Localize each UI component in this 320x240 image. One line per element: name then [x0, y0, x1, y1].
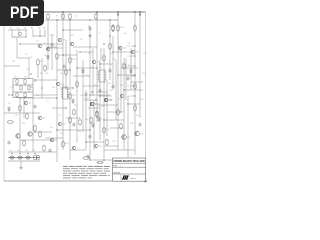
svg-text:75V: 75V	[26, 69, 30, 71]
svg-text:.01: .01	[98, 33, 101, 35]
svg-text:1K: 1K	[128, 65, 131, 67]
svg-text:3.3K: 3.3K	[50, 35, 55, 37]
svg-text:Q17: Q17	[98, 146, 103, 148]
svg-text:R70: R70	[127, 46, 130, 48]
svg-text:47p: 47p	[124, 33, 127, 35]
svg-text:2N3: 2N3	[45, 73, 48, 75]
svg-text:R61: R61	[12, 61, 15, 63]
svg-text:R24: R24	[72, 95, 77, 97]
svg-text:R72: R72	[127, 86, 130, 88]
svg-text:R1: R1	[56, 16, 58, 18]
svg-text:CROWN MACRO-TECH 2400: CROWN MACRO-TECH 2400	[113, 160, 145, 163]
svg-text:Q16: Q16	[108, 100, 113, 102]
svg-text:Q11: Q11	[62, 124, 67, 126]
svg-text:C2: C2	[75, 16, 77, 18]
svg-text:4.7K: 4.7K	[10, 87, 15, 89]
svg-text:Q8: Q8	[62, 40, 66, 42]
svg-text:D12: D12	[85, 119, 88, 121]
svg-text:R28: R28	[65, 143, 70, 145]
svg-text:220: 220	[86, 75, 89, 77]
svg-text:220: 220	[143, 53, 146, 55]
svg-text:R40: R40	[120, 27, 125, 29]
svg-text:C8: C8	[34, 81, 36, 83]
svg-text:2N3: 2N3	[130, 123, 133, 125]
svg-text:Q7: Q7	[58, 115, 61, 117]
svg-text:U2: U2	[99, 67, 101, 69]
svg-text:R61: R61	[22, 123, 25, 125]
svg-text:R9: R9	[33, 150, 35, 152]
svg-text:100: 100	[44, 55, 47, 57]
svg-text:C30: C30	[112, 59, 115, 61]
svg-text:D12: D12	[110, 53, 113, 55]
svg-text:Q3: Q3	[44, 43, 46, 45]
svg-text:R21: R21	[72, 59, 77, 61]
svg-text:3.3K: 3.3K	[112, 141, 117, 143]
svg-text:Q21: Q21	[135, 52, 140, 54]
svg-text:Q6: Q6	[42, 118, 46, 120]
svg-text:R33: R33	[106, 129, 111, 131]
svg-text:C53: C53	[127, 96, 130, 98]
svg-text:D12: D12	[118, 99, 121, 101]
svg-text:amplifiers: amplifiers	[130, 178, 137, 180]
svg-text:C52: C52	[127, 56, 130, 58]
svg-text:R52: R52	[74, 105, 77, 107]
svg-text:10u: 10u	[60, 73, 63, 75]
svg-text:1K: 1K	[88, 53, 91, 55]
svg-text:100: 100	[108, 83, 111, 85]
svg-text:4.7K: 4.7K	[12, 37, 17, 39]
svg-text:10u: 10u	[52, 87, 55, 89]
svg-text:4.7K: 4.7K	[101, 106, 106, 108]
svg-text:Q2: Q2	[36, 41, 38, 43]
svg-text:680: 680	[30, 87, 33, 89]
svg-text:4.7K: 4.7K	[14, 115, 19, 117]
svg-text:Q7: Q7	[36, 65, 39, 67]
svg-text:Q20: Q20	[122, 48, 127, 50]
svg-text:.01: .01	[46, 101, 49, 103]
svg-text:47p: 47p	[50, 127, 53, 129]
svg-text:C41: C41	[109, 90, 112, 92]
svg-text:Q25: Q25	[140, 134, 144, 136]
svg-text:D5: D5	[9, 150, 11, 152]
svg-text:R61: R61	[78, 131, 81, 133]
svg-text:10u: 10u	[90, 67, 93, 69]
svg-text:Q14: Q14	[96, 62, 101, 64]
svg-text:C30: C30	[66, 95, 69, 97]
svg-text:R45: R45	[120, 111, 125, 113]
svg-text:Q7: Q7	[128, 43, 131, 45]
svg-text:680: 680	[40, 73, 43, 75]
svg-text:U1: U1	[62, 85, 64, 87]
svg-text:47p: 47p	[136, 115, 139, 117]
svg-text:D9: D9	[127, 76, 129, 78]
svg-text:R52: R52	[140, 99, 143, 101]
svg-text:R52: R52	[60, 133, 63, 135]
svg-text:Q5: Q5	[28, 103, 32, 105]
svg-text:220: 220	[120, 85, 123, 87]
svg-text:D6: D6	[17, 150, 19, 152]
svg-text:R16: R16	[24, 77, 27, 79]
svg-text:C30: C30	[80, 95, 83, 97]
svg-text:2N3: 2N3	[70, 35, 73, 37]
svg-text:R12: R12	[40, 61, 45, 63]
svg-text:680: 680	[36, 95, 39, 97]
svg-text:Q15: Q15	[94, 104, 99, 106]
svg-text:100: 100	[29, 57, 32, 59]
svg-text:Q24: Q24	[127, 137, 131, 139]
svg-text:1K: 1K	[80, 39, 83, 41]
svg-text:R64: R64	[85, 98, 88, 100]
svg-text:C4: C4	[25, 54, 27, 56]
svg-text:.01: .01	[100, 119, 103, 121]
svg-text:R15: R15	[14, 77, 17, 79]
svg-text:C12: C12	[25, 150, 28, 152]
svg-text:C8: C8	[8, 103, 12, 105]
